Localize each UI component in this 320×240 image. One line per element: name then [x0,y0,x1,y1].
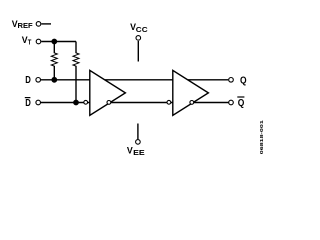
wire Q [188,79,229,81]
node VEE [127,146,145,158]
terminal VREF [36,22,41,27]
wire DB [41,102,90,104]
svg-text:Q: Q [238,98,245,109]
terminal VT [36,39,41,44]
bubble U2 inverting output [190,101,194,105]
resistor R1 [51,42,57,80]
wire VT [41,41,76,43]
svg-text:EE: EE [133,148,145,157]
buffer U1 [90,70,126,115]
svg-text:V: V [127,146,133,156]
resistor R2 [73,42,79,103]
bubble U1 inverting output [107,101,111,105]
junction R1/D [51,77,57,83]
junction R2/DB [73,100,79,106]
node QB [237,97,244,109]
wire U1 out to U2 in (bottom) [111,102,173,104]
wire VCC stub [137,41,139,62]
wire U1 out to U2 in (top) [105,79,173,81]
terminal QB [229,100,234,105]
buffer U2 [173,70,209,115]
terminal VEE [136,140,141,145]
svg-text:T: T [28,37,32,46]
wire VEE stub [137,124,139,140]
wire QB [192,102,229,104]
terminal DB [36,100,41,105]
wire D [41,79,90,81]
junction VT/R1 [51,39,57,45]
node DB [25,98,31,110]
svg-text:D: D [25,98,31,109]
node VT [22,35,32,47]
svg-text:Q: Q [240,76,247,87]
node VREF [12,19,33,30]
svg-text:06818-001: 06818-001 [259,120,265,154]
bubble U1 inverting input [84,100,88,104]
bubble U2 inverting input [167,100,171,104]
node VCC [130,22,148,34]
svg-text:CC: CC [136,25,149,34]
terminal Q [229,78,234,83]
wire VREF stub [41,23,51,25]
svg-text:REF: REF [18,21,34,30]
terminal VCC [136,36,141,41]
terminal D [36,78,41,83]
svg-text:D: D [25,75,31,86]
